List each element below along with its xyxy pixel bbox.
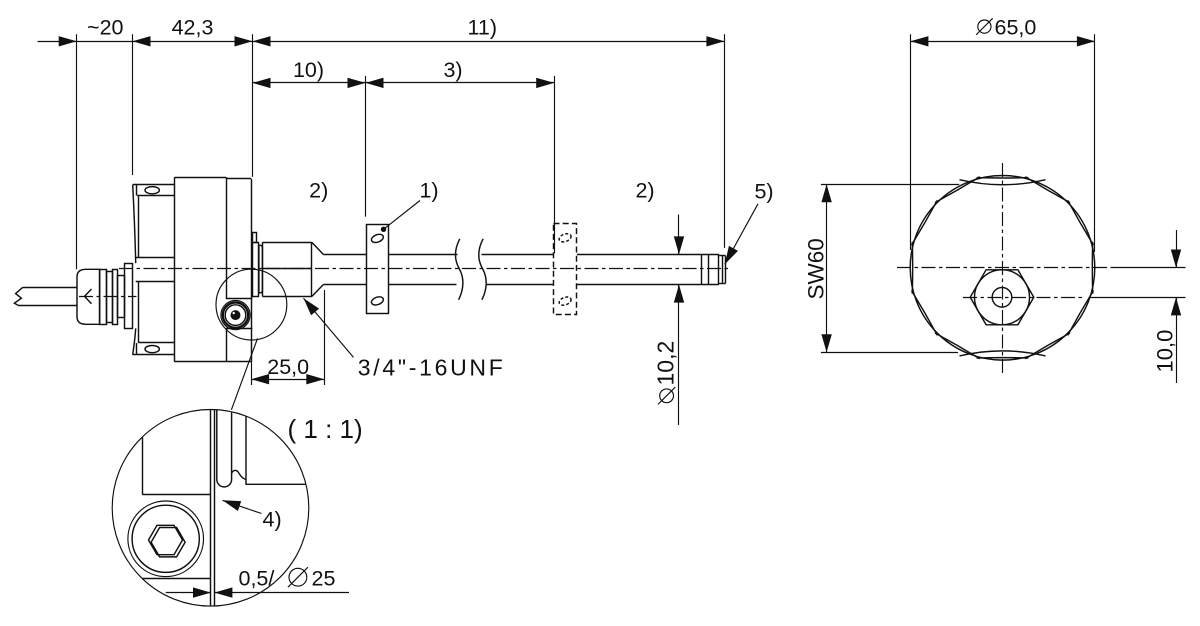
svg-text:0,5/: 0,5/ bbox=[239, 566, 275, 590]
svg-text:25: 25 bbox=[312, 566, 336, 590]
svg-text:1): 1) bbox=[419, 179, 438, 203]
svg-text:10): 10) bbox=[293, 58, 324, 82]
svg-text:11): 11) bbox=[468, 16, 497, 40]
svg-text:5): 5) bbox=[754, 180, 773, 204]
svg-text:SW60: SW60 bbox=[804, 238, 829, 299]
svg-text:25,0: 25,0 bbox=[267, 355, 309, 379]
svg-text:3): 3) bbox=[443, 58, 462, 82]
svg-text:42,3: 42,3 bbox=[172, 16, 214, 40]
svg-text:10,2: 10,2 bbox=[653, 341, 679, 386]
svg-text:2): 2) bbox=[635, 179, 654, 203]
svg-text:( 1 : 1): ( 1 : 1) bbox=[288, 414, 363, 444]
svg-text:3/4"-16UNF: 3/4"-16UNF bbox=[358, 354, 506, 380]
svg-text:2): 2) bbox=[309, 179, 328, 203]
svg-text:4): 4) bbox=[263, 508, 282, 532]
svg-text:65,0: 65,0 bbox=[995, 16, 1037, 40]
svg-text:~20: ~20 bbox=[87, 16, 124, 40]
svg-text:10,0: 10,0 bbox=[1153, 330, 1178, 373]
